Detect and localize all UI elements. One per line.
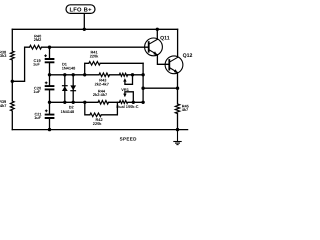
node: C19 bottom junction	[48, 73, 51, 76]
wiper VR1a arrow	[123, 78, 126, 82]
svg-text:3k3: 3k3	[0, 53, 7, 58]
resistor R40	[30, 45, 42, 49]
wire: left rail	[11, 29, 13, 129]
wire: Q12 collector from rail	[177, 29, 179, 57]
node: bus/emitter line	[141, 87, 144, 90]
wire: diode D1 lead	[64, 75, 66, 103]
wire: R42 loop below node3	[85, 102, 118, 115]
node: B+ drop junction	[83, 28, 86, 31]
node: C20 bottom junction	[48, 101, 51, 104]
resistor R43	[99, 73, 110, 77]
node: VR1a wiper tie	[131, 73, 134, 76]
node: D2 top	[72, 73, 75, 76]
resistor R42	[90, 113, 101, 117]
svg-text:4k7: 4k7	[182, 107, 189, 112]
svg-text:1uF: 1uF	[33, 89, 41, 94]
resistor R38	[10, 51, 14, 60]
svg-text:220k: 220k	[90, 54, 99, 59]
potentiometer VR1 element a	[119, 73, 127, 76]
transistor Q12	[165, 56, 183, 74]
wire: LFO B+ drop	[83, 13, 85, 29]
wire: Q11 emitter to Q12 base	[157, 55, 169, 65]
capacitor C20	[45, 86, 55, 89]
node: bus/node2	[141, 73, 144, 76]
svg-text:LFO B+: LFO B+	[69, 6, 92, 13]
wire: base line R40/C19 to Q11	[42, 46, 149, 48]
resistor R45	[175, 104, 179, 114]
wire: bias L-path to R40	[12, 47, 29, 81]
wire: emitter feedback line	[143, 87, 177, 89]
svg-text:1N4148: 1N4148	[62, 66, 76, 71]
capacitor C19	[45, 59, 55, 62]
node: ground junction on bottom rail	[176, 128, 179, 131]
wire: VR1b wiper loop	[125, 92, 133, 103]
svg-text:2M2: 2M2	[34, 37, 42, 42]
svg-text:1N4148: 1N4148	[61, 109, 75, 114]
wire: R41 stub and run to bus	[85, 63, 143, 75]
resistor R41	[89, 62, 100, 66]
node: R40/C19 junction	[48, 46, 51, 49]
node: R42 tap on node3	[83, 101, 86, 104]
wire: Q11 collector up	[156, 29, 158, 39]
wire: cap column leads	[49, 47, 51, 129]
svg-text:Q11: Q11	[160, 36, 170, 42]
wire: node3 line	[50, 101, 144, 103]
node: left rail bias tap	[11, 80, 14, 83]
svg-text:2k2-4k7: 2k2-4k7	[95, 81, 109, 86]
svg-text:4k7: 4k7	[0, 103, 6, 108]
svg-text:1uF: 1uF	[34, 115, 42, 120]
svg-text:Q12: Q12	[183, 53, 193, 59]
node: VR1b wiper tie	[132, 101, 135, 104]
wire: top B+ rail	[12, 28, 177, 30]
svg-text:SPEED: SPEED	[120, 136, 138, 141]
resistor R44	[98, 101, 109, 105]
svg-text:VR1: VR1	[121, 87, 129, 92]
potentiometer VR1 element b	[119, 101, 127, 104]
capacitor C21	[45, 115, 55, 118]
ground	[173, 130, 181, 145]
svg-text:220k: 220k	[93, 121, 102, 126]
node: Q11 collector on rail	[156, 28, 159, 31]
node: bus/node3	[141, 101, 144, 104]
svg-text:2k2-4k7: 2k2-4k7	[93, 92, 107, 97]
svg-text:Dual 100k-C: Dual 100k-C	[116, 104, 138, 109]
wiper VR1b arrow	[123, 94, 126, 98]
wire: node2 line	[50, 74, 144, 76]
wire: bottom rail	[12, 129, 187, 131]
LFO B+ tab	[66, 5, 95, 14]
node: Q12 emitter / feedback junction	[176, 87, 179, 90]
transistor Q11	[145, 38, 163, 56]
resistor R39	[10, 101, 14, 111]
node: C21 bottom junction	[48, 128, 51, 131]
wire: right bus	[142, 63, 144, 102]
wire: VR1a wiper loop	[125, 75, 133, 85]
diode D2 (pointing down)	[70, 85, 76, 90]
node: R41 stub on node2	[83, 73, 86, 76]
svg-text:1uF: 1uF	[33, 61, 41, 66]
wire: diode D2 lead	[72, 75, 74, 103]
node: D2 bottom	[72, 101, 75, 104]
diode D1 (pointing up)	[62, 86, 68, 91]
wire: Q12 emitter down	[177, 73, 179, 130]
node: D1 top	[63, 73, 66, 76]
node: D1 bottom	[63, 101, 66, 104]
